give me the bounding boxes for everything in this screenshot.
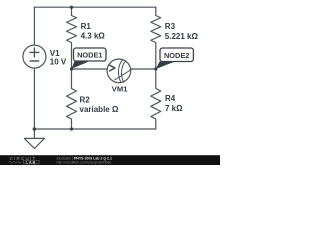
node NODE2 pointer wedge (156, 62, 175, 70)
svg-text:VM1: VM1 (112, 84, 128, 93)
svg-text:R3: R3 (165, 22, 176, 31)
voltmeter VM1 circle (107, 59, 131, 83)
junction dot top (R1 top) (70, 6, 73, 9)
node NODE1 box (74, 48, 107, 61)
wire left vertical top (V1 top lead) (33, 7, 35, 45)
junction dot node2 (154, 67, 157, 70)
resistor R2 (67, 69, 77, 129)
footer bar (0, 155, 220, 165)
footer logo LAB box (24, 160, 40, 164)
svg-text:NODE1: NODE1 (77, 51, 102, 60)
svg-text:R2: R2 (80, 95, 91, 104)
wire bottom horizontal (34, 128, 155, 130)
V1 plus sign (30, 48, 39, 57)
ground stem (33, 129, 35, 138)
svg-text:5.221 kΩ: 5.221 kΩ (165, 32, 199, 41)
svg-text:http://circuitlab.com/c/acgsq9: http://circuitlab.com/c/acgsq93h5ae (57, 160, 112, 164)
svg-text:4.3 kΩ: 4.3 kΩ (81, 32, 106, 41)
wire middle right (VM1 to NODE2) (131, 68, 156, 70)
junction dot node1 (70, 67, 73, 70)
VM1 needle (115, 69, 133, 80)
VM1 gauge arc 1 (118, 60, 122, 82)
svg-text:R4: R4 (165, 94, 176, 103)
node NODE2 box (160, 48, 193, 62)
svg-text:7 kΩ: 7 kΩ (165, 104, 183, 113)
wire top horizontal (34, 6, 155, 8)
voltage source V1 circle (23, 45, 46, 68)
junction dot bottom (R2 bottom) (70, 127, 73, 130)
ground triangle (24, 138, 44, 148)
VM1 gauge arc 2 (122, 61, 126, 83)
svg-text:R1: R1 (81, 22, 92, 31)
resistor R1 (67, 7, 77, 69)
junction dot bottom left (V1/ground) (33, 127, 37, 131)
footer logo resistor squiggle (9, 161, 22, 163)
svg-text:LAB: LAB (26, 160, 37, 164)
node NODE1 pointer wedge (72, 61, 91, 69)
resistor R4 (151, 69, 161, 129)
svg-text:NODE2: NODE2 (164, 51, 189, 60)
wire left vertical bottom (V1 bottom lead) (33, 68, 35, 129)
resistor R3 (151, 7, 161, 69)
svg-text:10 V: 10 V (50, 58, 67, 67)
VM1 chevron (110, 65, 115, 71)
V1 minus sign (30, 60, 39, 62)
wire middle left (NODE1 to VM1) (72, 68, 108, 70)
svg-text:variable Ω: variable Ω (80, 105, 119, 114)
svg-text:V1: V1 (50, 49, 60, 58)
